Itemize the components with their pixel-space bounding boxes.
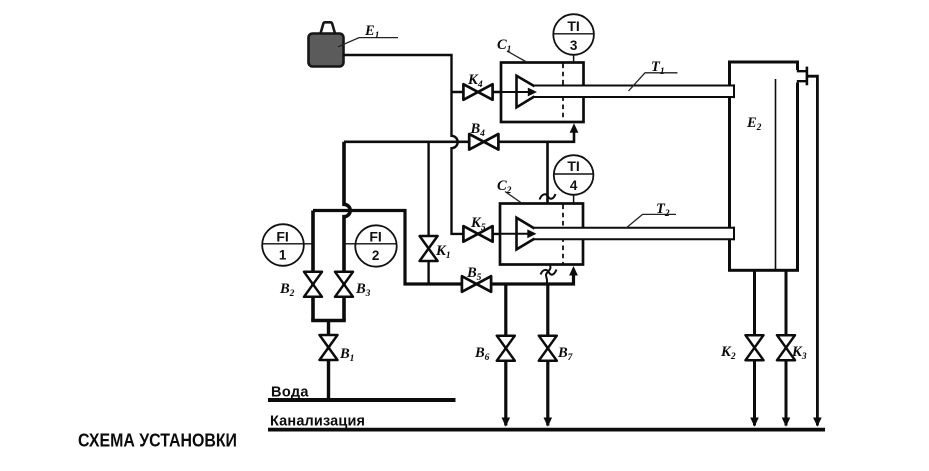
- label T1 leader: [629, 73, 678, 91]
- wire B4 line to C2 top: [546, 142, 549, 204]
- feed arrow C1: [501, 91, 528, 93]
- valve B5: [462, 276, 491, 292]
- arrow into C1 bottom: [570, 123, 579, 133]
- svg-text:Вода: Вода: [271, 384, 309, 400]
- thermowell dashed line C1: [562, 64, 564, 122]
- instrument FI1: [262, 224, 304, 266]
- wire B1 drop to water main: [327, 321, 330, 401]
- wire K3 drain: [785, 271, 788, 426]
- label E1 leader: [338, 38, 398, 47]
- valve B4: [469, 134, 498, 150]
- svg-text:TI: TI: [567, 18, 579, 34]
- overflow nozzle stubs: [797, 71, 807, 81]
- valve K5: [463, 226, 492, 242]
- tank E1 handle: [321, 22, 336, 33]
- wire K2 drain: [753, 271, 756, 426]
- valve K4: [463, 84, 492, 100]
- valve K2 (vertical): [746, 335, 764, 360]
- wire overflow to sewer: [807, 76, 818, 425]
- arrow B7 to sewer: [544, 418, 553, 427]
- svg-text:FI: FI: [369, 229, 381, 245]
- valve B3 (vertical): [335, 272, 353, 297]
- wire cross header to B5 line and arrow into C2 bottom: [313, 211, 574, 285]
- tilde at C2 bottom drain: [541, 270, 557, 275]
- wire U-merge bottom: [311, 319, 346, 323]
- svg-text:СХЕМА УСТАНОВКИ: СХЕМА УСТАНОВКИ: [78, 430, 237, 450]
- svg-text:2: 2: [372, 248, 380, 263]
- svg-text:Канализация: Канализация: [270, 414, 365, 430]
- hose squiggle at C2 top: [540, 194, 556, 200]
- label T2 leader: [626, 214, 677, 228]
- valve B7 (vertical): [539, 336, 557, 361]
- svg-text:1: 1: [279, 248, 287, 263]
- wire left FI branch (B2): [311, 211, 315, 321]
- valve K1 (vertical): [420, 236, 438, 261]
- tank E2: [730, 62, 798, 270]
- nozzle cone C1: [517, 76, 535, 108]
- instrument TI4: [554, 155, 594, 195]
- arrow K2 to sewer: [750, 418, 759, 427]
- wire K4 branch: [452, 91, 502, 93]
- valve B6 (vertical): [497, 336, 515, 361]
- svg-text:FI: FI: [276, 229, 288, 245]
- tank E2 internal partition: [775, 79, 777, 269]
- arrow overflow to sewer: [813, 418, 822, 427]
- label C1 leader: [507, 51, 527, 62]
- feed arrow C2: [500, 233, 528, 235]
- svg-text:4: 4: [570, 178, 578, 193]
- svg-text:TI: TI: [567, 158, 579, 174]
- instrument TI3: [553, 14, 594, 55]
- nozzle cone C2: [517, 218, 535, 250]
- tube T1: [534, 86, 734, 98]
- svg-text:3: 3: [570, 38, 578, 53]
- arrow K3 to sewer: [782, 418, 791, 427]
- instrument TI4 stem: [573, 195, 575, 204]
- tube T2: [534, 228, 734, 240]
- tank E2 wall gap for overflow nozzle: [796, 70, 800, 82]
- valve B1 (vertical): [320, 335, 338, 360]
- wire K1 riser: [427, 142, 429, 284]
- column C2 box: [500, 204, 583, 265]
- water main line: [268, 398, 456, 402]
- thermowell dashed line C2: [562, 205, 564, 264]
- arrow into C2 bottom: [569, 266, 578, 276]
- tank E1 body: [309, 34, 344, 67]
- overflow nozzle flange bar: [806, 67, 809, 86]
- wire right FI branch (B3) with hop: [344, 142, 350, 321]
- hose squiggle at C2 bottom drain: [546, 266, 551, 285]
- wire B7 drop: [546, 284, 549, 426]
- sewer main line: [268, 428, 825, 432]
- valve B2 (vertical): [304, 272, 322, 297]
- wire B6 drop: [504, 284, 507, 426]
- column C1 box: [501, 63, 584, 123]
- wire E1 outlet to K5 corner (with hop over B4 line): [343, 55, 500, 234]
- instrument TI3 stem: [573, 55, 575, 63]
- label C2 leader: [505, 192, 522, 204]
- instrument FI2: [355, 225, 396, 266]
- valve K3 (vertical): [777, 335, 795, 360]
- arrow B6 to sewer: [502, 418, 511, 427]
- wire B4 line: [344, 132, 574, 142]
